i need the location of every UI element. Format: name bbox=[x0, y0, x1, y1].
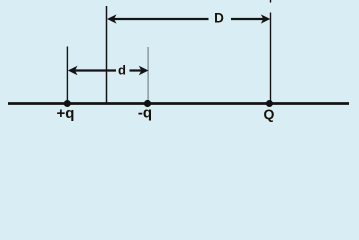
charge dot -q bbox=[144, 100, 151, 107]
wire: top tick above Q bbox=[270, 0, 272, 3]
dimension arrow d (double-headed) bbox=[68, 66, 149, 76]
svg-text:d: d bbox=[118, 63, 126, 78]
wire: vertical guide line above Q bbox=[270, 13, 272, 104]
wire: tall vertical reference line (left end of D) bbox=[106, 6, 108, 103]
charge dot +q bbox=[64, 100, 71, 107]
dimension arrow D (double-headed) bbox=[107, 14, 270, 23]
wire: horizontal axis line bbox=[8, 102, 349, 105]
wire: vertical guide line above +q bbox=[66, 47, 68, 104]
svg-text:+q: +q bbox=[57, 105, 75, 122]
svg-text:Q: Q bbox=[263, 106, 274, 122]
svg-text:D: D bbox=[214, 11, 224, 26]
svg-text:-q: -q bbox=[138, 105, 152, 122]
charge dot Q bbox=[266, 100, 273, 107]
wire: vertical guide line above -q (gray) bbox=[147, 47, 149, 103]
